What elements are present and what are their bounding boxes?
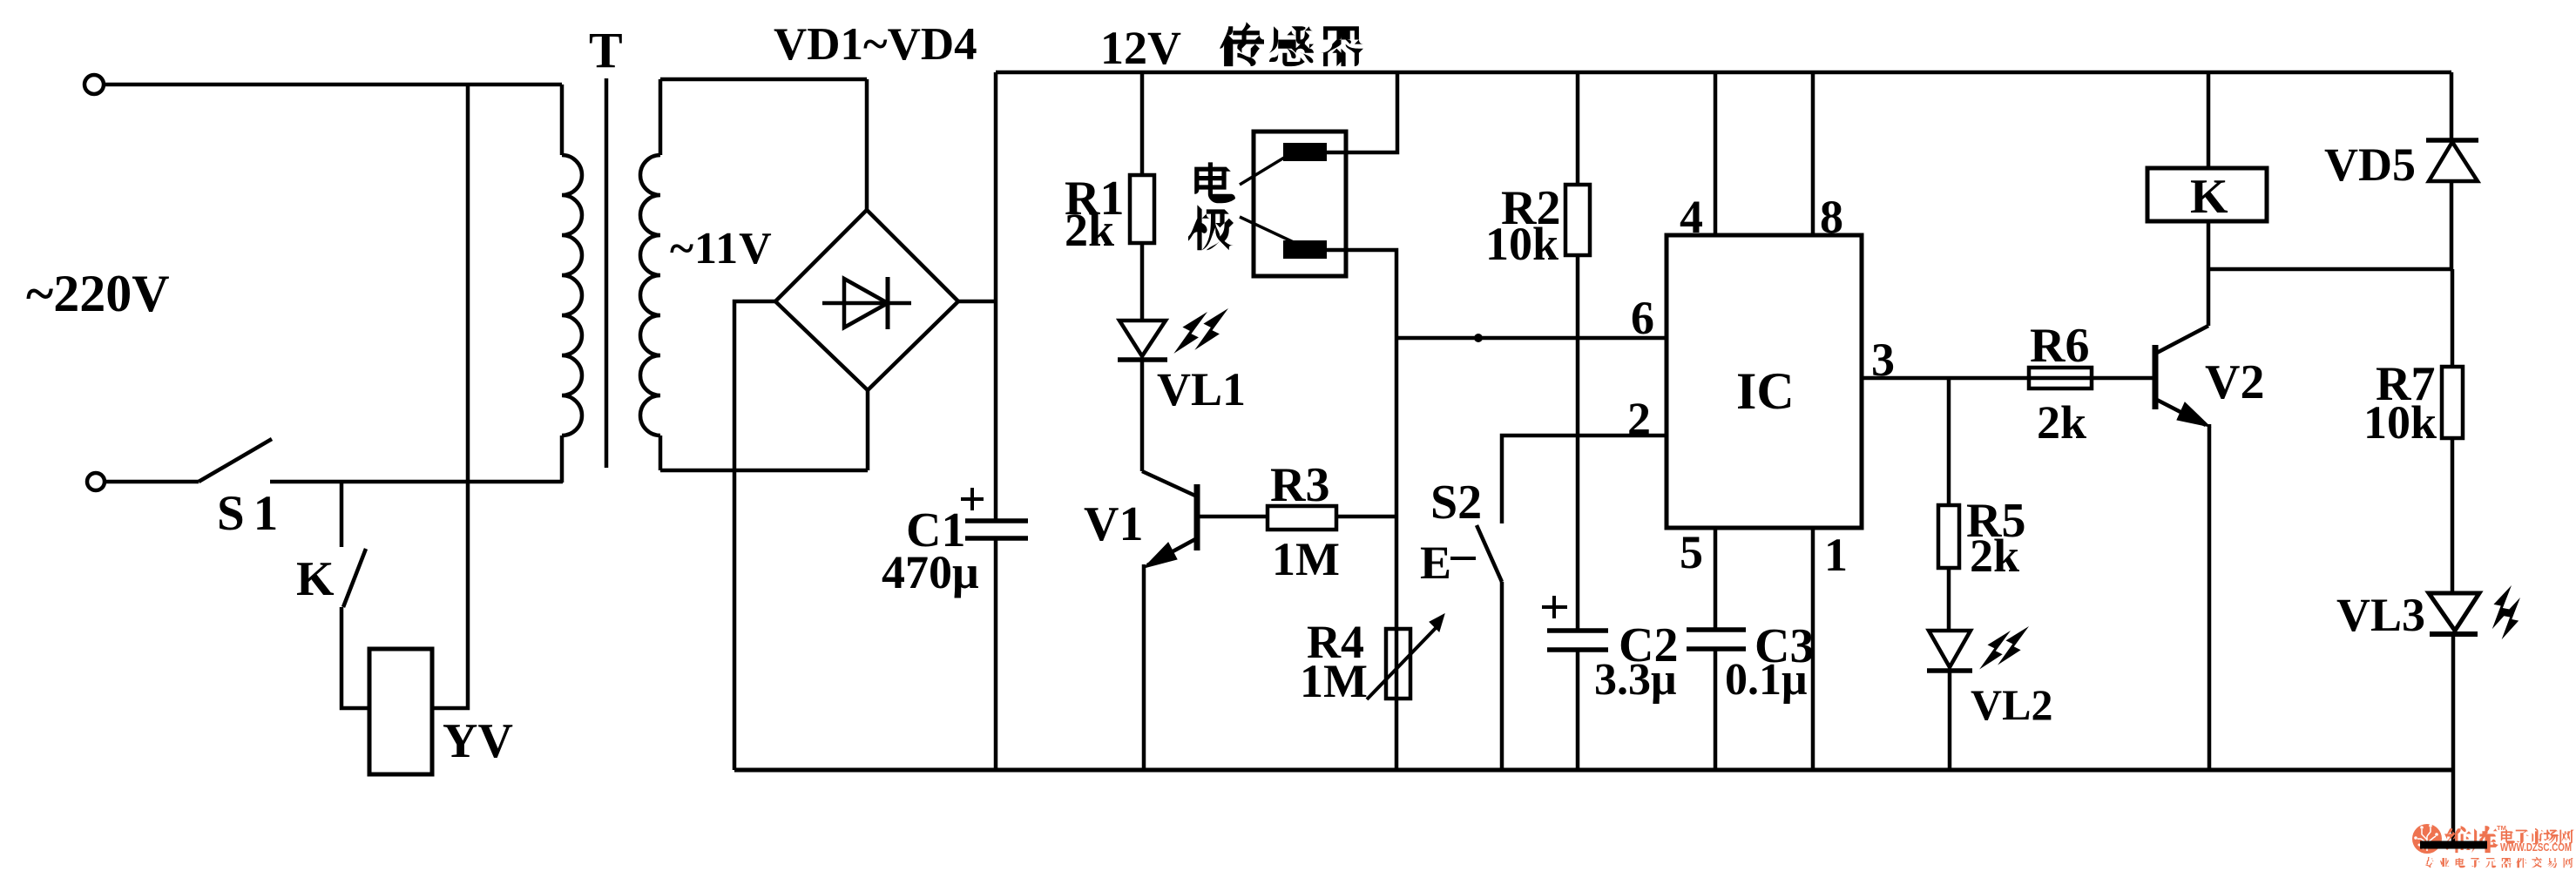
svg-text:V2: V2 xyxy=(2205,355,2264,409)
svg-text:5: 5 xyxy=(1680,526,1703,578)
wire rail to R2 xyxy=(1576,72,1580,185)
bridge inner diode symbol xyxy=(822,301,911,306)
svg-text:1M: 1M xyxy=(1272,533,1340,585)
transformer T secondary winding xyxy=(659,79,663,155)
wire V1 base to R3 xyxy=(1197,515,1268,519)
terminal lower ~220V xyxy=(87,473,105,490)
wire V2 emitter to ground bus xyxy=(2208,424,2212,770)
capacitor C3 xyxy=(1687,627,1746,632)
svg-text:TM: TM xyxy=(2497,824,2506,832)
wire VL2 to ground bus xyxy=(1948,671,1952,770)
svg-text:6: 6 xyxy=(1631,292,1654,344)
sensor top electrode xyxy=(1283,143,1327,161)
wire VL1 to V1 collector xyxy=(1140,360,1145,471)
wire VD5 node down to R7 xyxy=(2451,269,2455,367)
wire bus to ground xyxy=(2451,770,2456,841)
svg-text:VL3: VL3 xyxy=(2336,589,2425,641)
wire S2 to ground bus xyxy=(1500,582,1504,770)
switch S2 xyxy=(1477,525,1502,582)
svg-text:S2: S2 xyxy=(1430,476,1482,530)
wire branch down to K switch xyxy=(340,482,344,547)
resistor R2 xyxy=(1565,185,1590,255)
wire rail to R1 xyxy=(1140,72,1145,175)
wire top-left to transformer xyxy=(104,83,562,87)
wire rail down through C1 xyxy=(994,72,998,521)
svg-text:10k: 10k xyxy=(1485,218,1558,270)
wire R3 to sensor line xyxy=(1336,515,1396,519)
switch S1 xyxy=(199,439,272,482)
svg-text:3.3μ: 3.3μ xyxy=(1594,655,1676,705)
wire K to V2 collector xyxy=(2207,221,2211,326)
wire V1 emitter to ground bus xyxy=(1142,564,1146,770)
svg-text:VL2: VL2 xyxy=(1971,680,2052,729)
svg-text:1: 1 xyxy=(1824,529,1848,581)
wire R5 to VL2 xyxy=(1947,568,1951,631)
watermark 专业电子元器件交易网站 xyxy=(2424,857,2435,868)
svg-text:~220V: ~220V xyxy=(26,265,170,322)
watermark logo circle xyxy=(2412,824,2442,854)
wire S1 to transformer primary bottom xyxy=(270,480,563,484)
wire R2 down to C2 xyxy=(1576,255,1580,631)
svg-text:10k: 10k xyxy=(2363,396,2437,449)
wire lower terminal to S1 xyxy=(105,480,199,484)
IC pin 8 wire xyxy=(1811,72,1815,235)
transistor V1 xyxy=(1142,471,1197,496)
wire K bottom to VD5 anode xyxy=(2208,267,2451,272)
svg-text:8: 8 xyxy=(1820,191,1843,243)
svg-text:T: T xyxy=(589,22,623,78)
LED VL1 xyxy=(1119,321,1166,356)
resistor R1 xyxy=(1130,175,1154,243)
capacitor C1 xyxy=(965,518,1028,523)
IC pin 5 wire to C3 xyxy=(1714,528,1718,630)
IC pin 4 wire xyxy=(1714,72,1718,235)
wire R7 to VL3 xyxy=(2451,438,2455,593)
svg-text:R3: R3 xyxy=(1270,458,1329,512)
wire pin3 branch to R5 xyxy=(1947,378,1951,505)
svg-text:2k: 2k xyxy=(2037,396,2086,449)
ground xyxy=(2420,841,2487,849)
switch K (relay contact) xyxy=(343,549,366,607)
wire secondary top to bridge xyxy=(660,78,867,82)
svg-text:R6: R6 xyxy=(2030,319,2089,373)
svg-text:YV: YV xyxy=(443,714,513,768)
svg-text:WWW.DZSC.COM: WWW.DZSC.COM xyxy=(2500,841,2572,854)
svg-text:K: K xyxy=(2190,170,2228,224)
wire K to YV xyxy=(341,607,369,708)
resistor R6 xyxy=(2029,368,2092,388)
svg-text:V1: V1 xyxy=(1084,497,1143,551)
electrode pointer lines xyxy=(1240,158,1284,185)
watermark 电子市场网 xyxy=(2501,830,2515,844)
IC pin 3 wire xyxy=(1862,376,2154,381)
capacitor C2 xyxy=(1547,628,1608,633)
wire 12V rail xyxy=(996,71,2451,75)
svg-text:12V: 12V xyxy=(1100,22,1181,74)
terminal upper ~220V xyxy=(85,75,104,94)
transformer T primary winding xyxy=(560,84,565,155)
wire VL3 to ground bus xyxy=(2451,634,2456,770)
svg-text:2k: 2k xyxy=(1970,530,2019,582)
svg-text:K: K xyxy=(296,552,335,606)
IC pin 1 wire to ground bus xyxy=(1811,528,1815,770)
svg-text:1M: 1M xyxy=(1300,655,1368,707)
wire C2 to ground bus xyxy=(1576,650,1580,770)
resistor R5 xyxy=(1938,505,1959,568)
junction dot on pin6 wire xyxy=(1474,334,1483,342)
solenoid valve coil YV xyxy=(369,649,432,774)
resistor R7 xyxy=(2442,367,2463,438)
LED VL2 xyxy=(1929,631,1971,667)
wire ground bus xyxy=(734,768,2453,773)
wire C1 to ground bus xyxy=(994,538,998,770)
wire R1 to VL1 xyxy=(1140,243,1145,321)
label 电极 xyxy=(1194,162,1235,203)
wire bridge positive to 12V rail xyxy=(958,300,996,304)
svg-text:470μ: 470μ xyxy=(882,546,979,598)
variable resistor R4 xyxy=(1386,629,1410,699)
LED VL3 xyxy=(2429,593,2479,631)
diode VD5 xyxy=(2450,72,2454,140)
svg-text:VD5: VD5 xyxy=(2324,138,2416,191)
svg-text:VL1: VL1 xyxy=(1157,363,1246,415)
wire bridge negative to ground bus xyxy=(734,301,775,770)
svg-text:VD1~VD4: VD1~VD4 xyxy=(774,19,977,70)
wire secondary bottom to bridge xyxy=(660,469,868,473)
wire IC pin2 to S2 xyxy=(1502,435,1667,523)
wire C3 to ground bus xyxy=(1714,649,1718,770)
bridge rectifier VD1~VD4 xyxy=(775,210,958,390)
svg-text:4: 4 xyxy=(1680,191,1703,243)
svg-text:~11V: ~11V xyxy=(670,224,773,273)
wire to IC pin 6 xyxy=(1396,336,1667,341)
label 传感器 xyxy=(1220,22,1264,66)
svg-text:S1: S1 xyxy=(217,486,287,541)
wire sensor bottom electrode down xyxy=(1327,250,1396,770)
relay coil K xyxy=(2147,168,2267,221)
wire rail to relay K xyxy=(2207,72,2211,168)
svg-text:2k: 2k xyxy=(1065,204,1114,256)
svg-text:IC: IC xyxy=(1736,362,1795,420)
transformer T core xyxy=(605,78,609,468)
transistor V2 xyxy=(2153,345,2159,409)
svg-text:0.1μ: 0.1μ xyxy=(1725,655,1807,705)
svg-text:E: E xyxy=(1420,537,1451,589)
wire sensor top electrode to rail xyxy=(1327,72,1397,152)
sensor bottom electrode xyxy=(1283,240,1327,259)
IC box xyxy=(1667,235,1862,528)
svg-text:3: 3 xyxy=(1871,334,1895,386)
wire YV right side up to top wire xyxy=(432,84,468,708)
svg-text:2: 2 xyxy=(1627,393,1651,445)
resistor R3 xyxy=(1268,506,1336,530)
watermark 维库 xyxy=(2444,826,2471,853)
sensor box 传感器 xyxy=(1254,132,1346,276)
